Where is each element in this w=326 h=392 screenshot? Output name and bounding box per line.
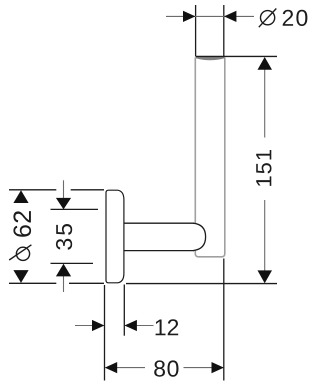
dim 80: left arrow (pointing left) (105, 362, 117, 373)
dim 80: value 80 (154, 360, 178, 376)
dim 80: dimension line left segment (106, 367, 146, 369)
arm body (white fill over rod edge) (126, 224, 206, 250)
dim 35: top arrow (pointing down) (56, 198, 71, 210)
dim 35: bottom arrow (pointing up) (56, 264, 71, 277)
dim Ø62: bottom extension line right part (69, 282, 104, 284)
dim 151: value 151 (256, 150, 271, 186)
dim Ø62: bottom extension line left part (9, 282, 56, 284)
dim 151: dimension line lower (264, 200, 266, 272)
dim Ø62: top extension line left part (9, 189, 56, 191)
dim 80: right arrow (pointing right) (212, 362, 224, 373)
dim 12: right arrow (pointing left) (125, 320, 137, 331)
dim 12: right tail line (125, 325, 154, 327)
dim 151: bottom arrow (258, 270, 273, 283)
dim 12: right extension line (123, 285, 125, 336)
dim 12: left tail line (75, 325, 104, 327)
dim 151: dimension line upper (264, 69, 266, 138)
rod (vertical bar, side view) (195, 57, 225, 257)
dim Ø20: left arrow (183, 11, 195, 22)
dim Ø20: right arrow (224, 11, 236, 22)
dim Ø62: top extension line right part (71, 189, 104, 191)
arm end cap bulge (193, 223, 206, 250)
dim Ø62: diameter symbol (9, 245, 31, 261)
dim Ø62: value 62 (13, 211, 31, 237)
dim 35: upper tail line (63, 180, 65, 209)
dim 151: bottom extension line (126, 283, 277, 285)
dim 12: left arrow (pointing right) (92, 320, 104, 331)
dim 35: top extension line (51, 208, 99, 210)
dim Ø20: diameter symbol (259, 9, 277, 28)
dim 80: dimension line right segment (184, 367, 224, 369)
dim 12: value 12 (156, 319, 179, 335)
dim Ø62: top arrow (13, 190, 28, 203)
dim 151: top arrow (258, 57, 273, 70)
dim Ø20: value 20 (283, 10, 308, 26)
dim Ø62: bottom arrow (13, 270, 28, 283)
dim 35: bottom extension line (51, 262, 94, 264)
arm bottom line (124, 250, 194, 252)
dim 12: left extension line (104, 285, 106, 381)
dim 35: value 35 (56, 224, 72, 250)
dim Ø20: dimension line (166, 15, 254, 17)
wall plate (escutcheon, side view) (106, 190, 124, 283)
dim 80: right extension line (223, 259, 225, 381)
dim 35: lower tail line (63, 264, 65, 292)
dim 151: top extension line (196, 55, 277, 57)
arm top line (124, 222, 194, 224)
dim Ø20: left extension line (195, 5, 197, 57)
dim Ø20: right extension line (223, 5, 225, 57)
